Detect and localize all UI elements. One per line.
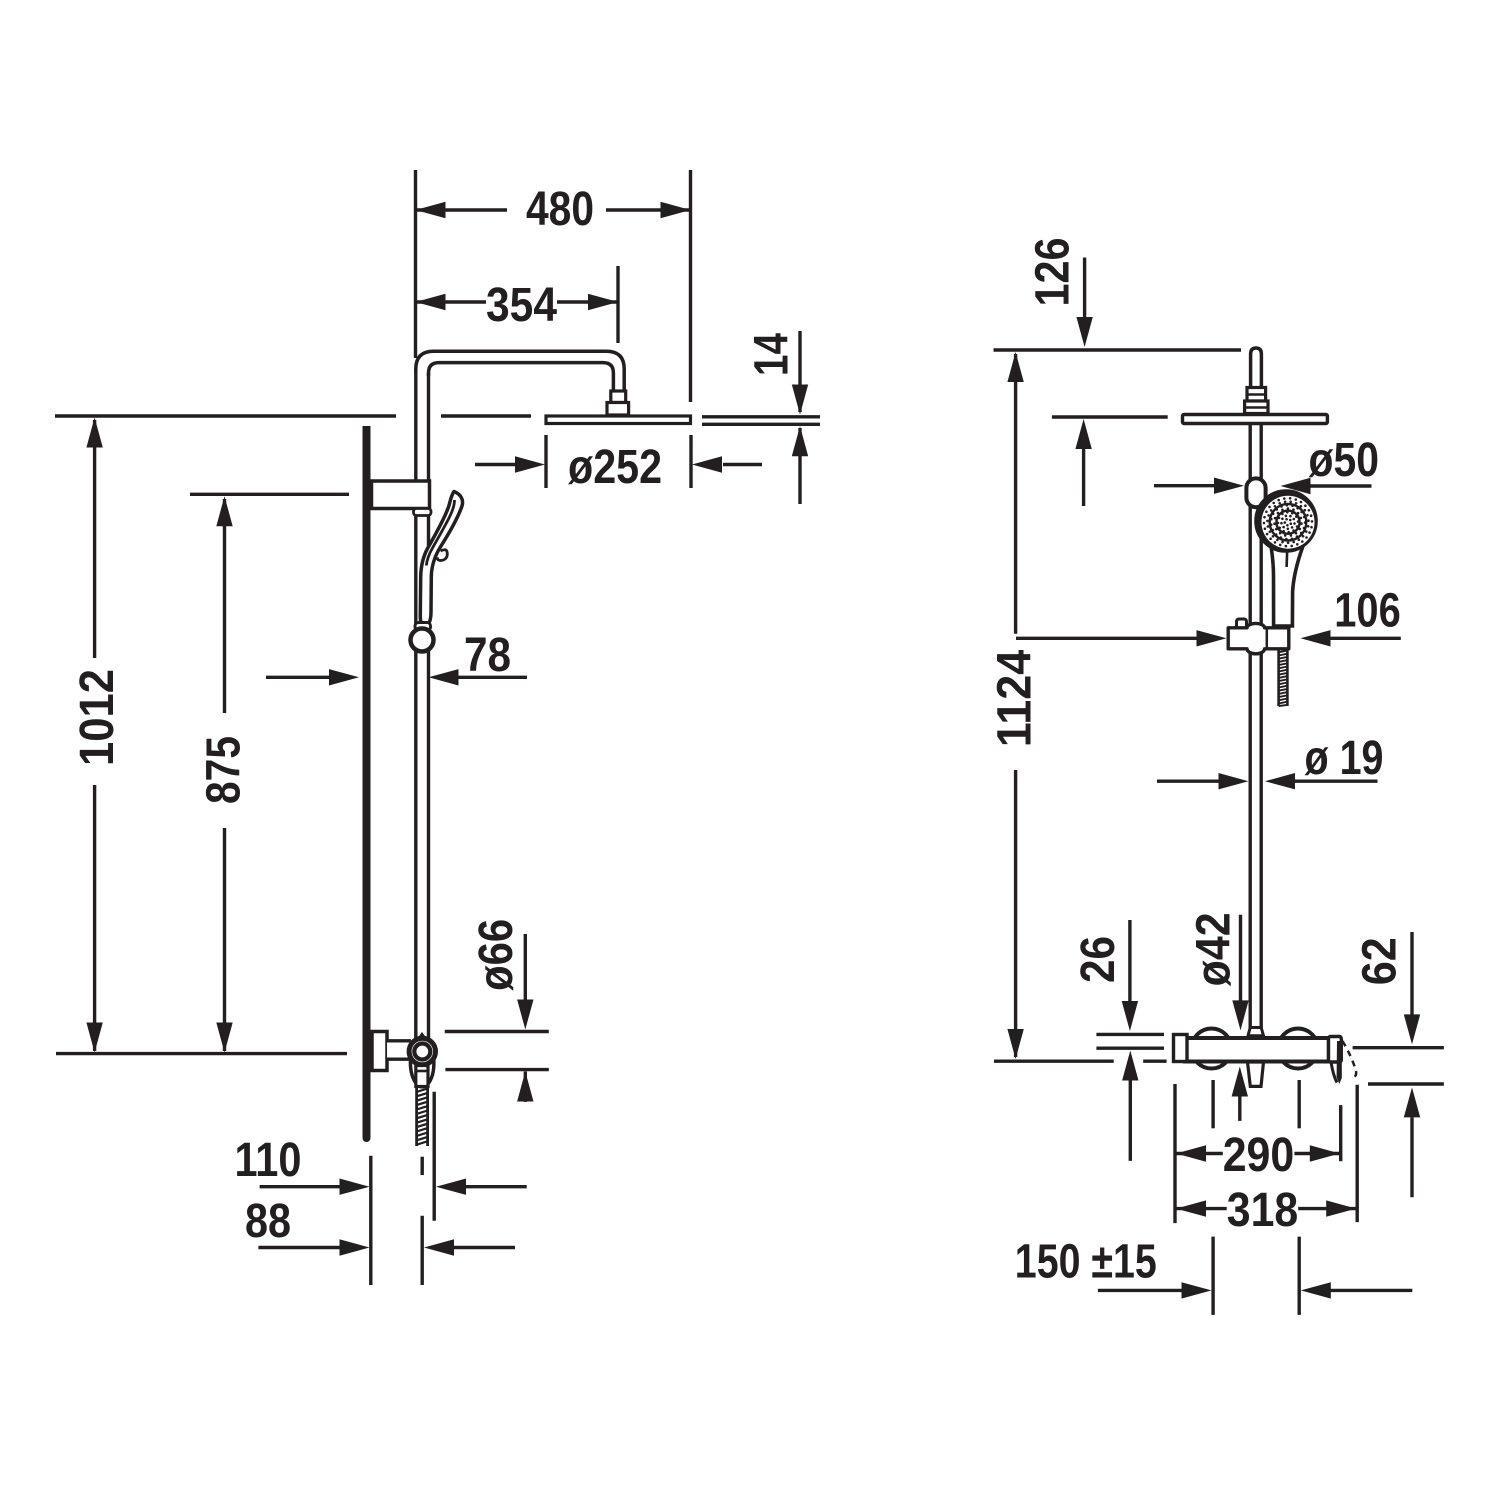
dim 290 extension lines <box>1173 1084 1176 1223</box>
hose centerline dashes <box>421 1157 424 1175</box>
vent connector nuts <box>1247 388 1266 402</box>
slider knob collar <box>415 623 431 631</box>
valve lever end cap (front view) <box>1329 1037 1342 1063</box>
dim 26 extension lines <box>1096 1033 1164 1036</box>
dim 1012 vertical line <box>93 420 96 658</box>
valve body circle <box>409 1038 435 1064</box>
dim 290 line <box>1175 1152 1223 1155</box>
svg-text:318: 318 <box>1227 1184 1299 1237</box>
dim 480 extension lines <box>414 170 417 358</box>
dim 480 arrows <box>416 202 446 218</box>
handshower face rings <box>1270 504 1307 541</box>
wall bracket top (left view) <box>372 481 430 509</box>
handshower handle (front view) <box>1271 546 1303 626</box>
dim ø66 vertical lines <box>524 934 527 1001</box>
valve spout <box>1248 1062 1264 1086</box>
svg-text:354: 354 <box>486 279 557 332</box>
dim ø42 line <box>1239 915 1242 1001</box>
shower head disc (front view) <box>1183 415 1328 424</box>
valve knobs (front view) <box>1192 1029 1232 1069</box>
dim 875 arrows <box>216 496 232 526</box>
svg-text:480: 480 <box>526 183 594 236</box>
dim 110 arrows <box>260 1185 340 1188</box>
dim 318 arrows <box>1176 1200 1206 1216</box>
dim ø42 arrows <box>1232 1000 1248 1030</box>
dim 78 left arrow <box>266 676 334 679</box>
valve lever blade <box>1337 1041 1342 1084</box>
svg-text:ø 19: ø 19 <box>1305 732 1384 785</box>
shower head disc (left view) <box>546 416 691 424</box>
dim ø19 arrows <box>1157 780 1219 783</box>
dim 126 down arrow <box>1076 317 1092 347</box>
dim 126 up arrow <box>1075 419 1091 449</box>
dim 110/88 wall extension line <box>369 1156 372 1285</box>
slider knob (front view) <box>1246 478 1265 507</box>
svg-text:78: 78 <box>464 629 511 682</box>
dim 480 line <box>416 208 508 211</box>
dim ø252 left arrow <box>475 463 516 466</box>
handshower holder hook <box>437 550 447 561</box>
dim ø66 arrows <box>517 1000 533 1030</box>
dim 318 line <box>1175 1207 1227 1210</box>
bottom reference line (left view) <box>56 1052 347 1055</box>
bottom reference line (right view) <box>994 1059 1114 1062</box>
shower arm pipe <box>416 351 624 391</box>
svg-text:88: 88 <box>245 1195 291 1248</box>
dim 126 lower extension line <box>1052 415 1168 418</box>
dim 318 extension line right <box>1355 1085 1358 1222</box>
valve left end cap <box>1174 1035 1188 1062</box>
dim 62 line <box>1410 932 1413 1015</box>
svg-text:ø42: ø42 <box>1187 912 1240 986</box>
svg-text:150 ±15: 150 ±15 <box>1015 1235 1157 1288</box>
riser pipe (right view) <box>1248 424 1251 1036</box>
slider knob circle <box>411 629 434 652</box>
dim ø66 extension lines <box>445 1030 549 1033</box>
dim 106 arrows <box>1016 637 1198 640</box>
top reference line (right view) <box>994 348 1242 351</box>
hose nut (left view) <box>416 1066 428 1087</box>
dim 354 arrows <box>416 294 446 310</box>
valve wall bracket <box>372 1032 387 1071</box>
wall vertical thick line <box>363 426 371 1138</box>
dim 875 vertical line <box>223 499 226 713</box>
valve top nub <box>419 1035 426 1040</box>
dim 62 extension lines <box>1353 1046 1444 1049</box>
svg-text:62: 62 <box>1353 937 1406 985</box>
handshower spray dots <box>1290 522 1293 525</box>
svg-text:ø66: ø66 <box>470 919 523 991</box>
handshower side inner line <box>426 500 454 566</box>
shower head connector nuts <box>611 391 626 403</box>
svg-text:1012: 1012 <box>71 669 124 766</box>
svg-text:ø50: ø50 <box>1309 434 1380 487</box>
dim 150 arrows <box>1098 1289 1184 1292</box>
handshower face notch <box>1285 550 1288 567</box>
dim 1124 line <box>1014 354 1017 634</box>
dim 126 line upper <box>1083 258 1086 319</box>
dim 1124 arrows <box>1007 352 1023 382</box>
riser flare into valve <box>1248 1028 1264 1036</box>
dim 290 arrows <box>1176 1145 1206 1161</box>
svg-text:290: 290 <box>1223 1129 1295 1182</box>
valve outlet housing <box>410 1054 433 1087</box>
dim ø252 extension lines <box>544 435 547 488</box>
svg-text:26: 26 <box>1072 936 1125 983</box>
svg-text:875: 875 <box>197 736 250 804</box>
dim 354 extension line <box>616 266 619 343</box>
dim 14 vertical lines <box>798 331 801 412</box>
valve body (front view) <box>1185 1038 1329 1062</box>
handshower face outer circle <box>1256 491 1316 551</box>
svg-text:110: 110 <box>235 1134 302 1187</box>
svg-text:126: 126 <box>1026 238 1079 307</box>
pipe collar below bracket <box>414 509 432 516</box>
dim 26 line <box>1128 920 1131 1001</box>
dim 354 line <box>416 300 487 303</box>
holder bracket tab <box>1237 619 1247 629</box>
dim 62 arrows <box>1404 1014 1420 1044</box>
coiled hose (left view) <box>415 1087 418 1146</box>
dim 14 arrows <box>792 385 808 415</box>
wall top reference line (left view) <box>55 414 396 417</box>
svg-text:ø252: ø252 <box>568 441 662 494</box>
air vent tube <box>1251 348 1262 388</box>
dim 150 extension lines <box>1211 1080 1214 1128</box>
valve lever alternate position (dashed) <box>1343 1041 1357 1079</box>
dim 875 extension line <box>190 493 349 496</box>
disc plane double lines right <box>702 415 820 418</box>
valve inner circle <box>414 1044 430 1060</box>
dim ø50 arrows <box>1154 484 1216 487</box>
coiled hose (front view) <box>1277 649 1280 706</box>
shower riser pipe (left view) <box>414 369 417 1041</box>
svg-text:106: 106 <box>1334 585 1401 638</box>
dim ø252 right arrow <box>723 463 762 466</box>
dim 78 right arrow <box>452 676 527 679</box>
dim 26 arrows <box>1122 1001 1138 1031</box>
holder bracket <box>1228 623 1289 653</box>
svg-text:14: 14 <box>745 333 798 376</box>
dim 110 right extension line <box>433 1092 436 1221</box>
dim 88 arrows <box>258 1246 340 1249</box>
handshower face plate <box>1262 496 1315 549</box>
svg-text:1124: 1124 <box>988 649 1041 747</box>
dim 1012 arrows <box>86 418 102 448</box>
handshower side view body <box>420 492 462 627</box>
valve arm <box>387 1041 411 1059</box>
